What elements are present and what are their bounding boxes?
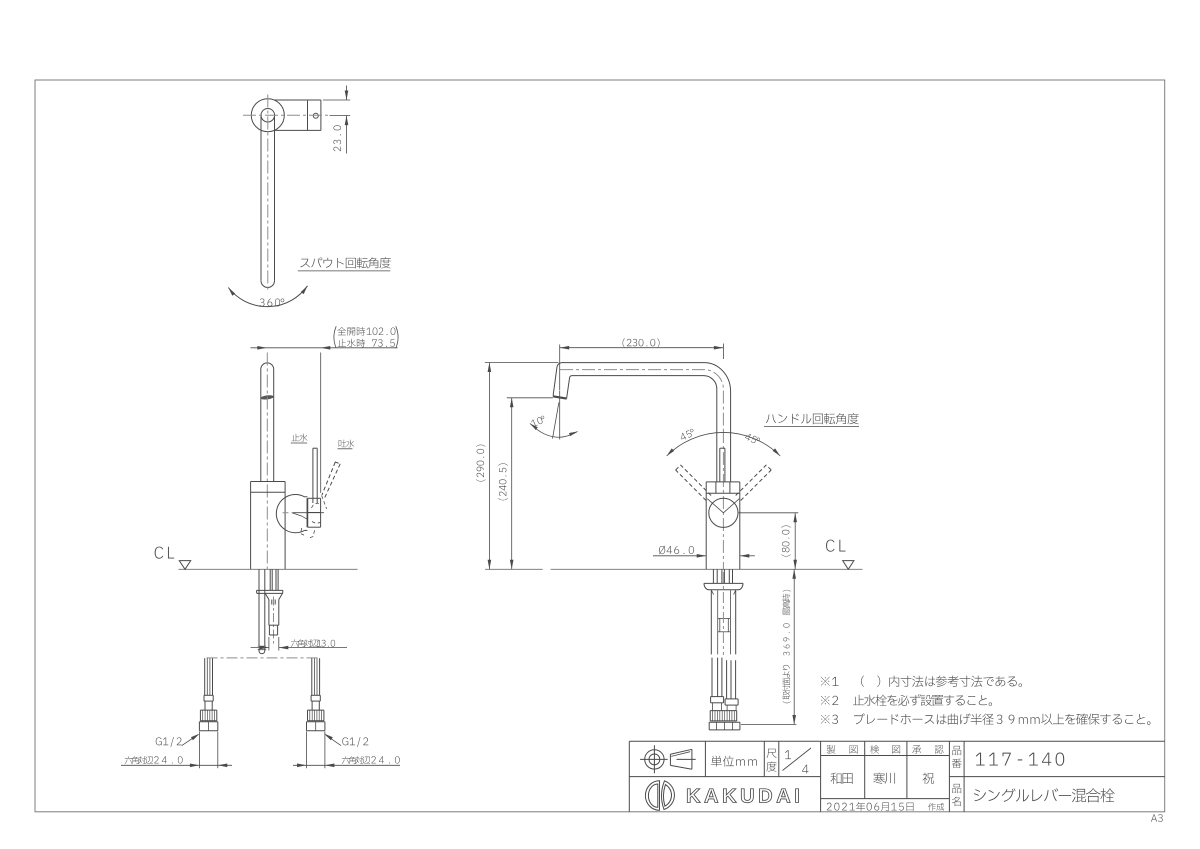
counter mounting line (left segment) xyxy=(179,568,358,570)
handle reach dimension text: open 102.0 / closed 73.5 with parens xyxy=(337,327,365,335)
plan view spout tube inner circle xyxy=(261,108,275,122)
dimension (290.0) extension line xyxy=(485,362,559,364)
names wada samukawa shuku xyxy=(831,773,853,784)
dashed handle position left 45 xyxy=(676,470,707,501)
note 3: keep braided hose bend radius at least 39mm xyxy=(821,715,838,724)
dimension (230.0) extension lines xyxy=(559,345,561,391)
unit label tan-i mm xyxy=(711,756,757,767)
dimension 369.0 bottom extension line xyxy=(741,724,796,726)
dimension (80.0) line and arrows xyxy=(794,513,796,570)
KAKUDAI logo mark xyxy=(645,781,659,811)
hinmei label (product name) xyxy=(952,784,961,793)
side view spout inner contour xyxy=(567,376,717,482)
hose end tube xyxy=(204,658,206,695)
side view shank centerline (chain) xyxy=(722,572,724,655)
dimension (240.5) extension line xyxy=(507,397,553,399)
diameter 46.0 dimension with arrows xyxy=(659,546,694,555)
date 2021-06-15 created xyxy=(827,803,855,811)
side view threaded shank outline xyxy=(710,590,712,654)
hose end collar xyxy=(311,694,320,696)
plan view body outline xyxy=(274,99,321,101)
right fitting hex 24.0 dimension line xyxy=(293,764,400,766)
CL datum triangle left xyxy=(179,561,190,570)
handle reach extension lines xyxy=(320,353,322,493)
fitting ribbed nut xyxy=(200,709,216,711)
drawn checked approved headers xyxy=(827,745,836,754)
side view spout outer contour xyxy=(562,363,731,482)
dimension 369.0 line and arrows xyxy=(793,569,795,724)
hose end neck xyxy=(204,701,206,710)
side view shank inner tube lines xyxy=(717,590,719,654)
title block outer and grid lines xyxy=(629,740,1164,742)
plan view swivel housing circle xyxy=(251,99,284,132)
dimension text (80.0) rotated xyxy=(781,525,790,556)
dimension text hex across flats 13.0 xyxy=(291,639,319,647)
front view body outline xyxy=(251,481,286,483)
label discharge (tosui) with underline xyxy=(339,440,355,448)
counter mounting line (right segment) xyxy=(551,568,863,570)
front view valve dome arc xyxy=(276,495,304,533)
dimension 23.0 extension lines xyxy=(323,99,350,101)
hose end neck xyxy=(311,701,313,710)
dimension text (240.5) rotated xyxy=(498,463,507,500)
front view valve cylinder top and bottom xyxy=(305,496,308,498)
side view riser centerline (chain) xyxy=(722,430,724,569)
plan view spout tube end cap xyxy=(261,281,275,288)
CL datum triangle right xyxy=(843,561,854,570)
dashed handle position right 45 xyxy=(741,470,772,501)
scale value 1/4 xyxy=(785,750,791,759)
sheet size label A3 xyxy=(1151,814,1163,822)
hex 13.0 dimension line and arrows xyxy=(251,647,269,649)
front view escutcheon flange xyxy=(257,589,283,591)
KAKUDAI logo text xyxy=(687,789,798,803)
CL label left xyxy=(155,547,174,559)
dimension text (290.0) rotated xyxy=(476,445,485,482)
side view ribbed nuts xyxy=(710,710,737,712)
fitting hex nut G1/2 xyxy=(199,721,217,723)
side view pivot V lines xyxy=(707,499,723,513)
handle swing 45 degree arc with arrows xyxy=(667,432,781,456)
plan view body end-cap divider xyxy=(307,101,309,130)
CL label right xyxy=(826,540,845,552)
outlet angle 10 degree lines xyxy=(559,391,561,440)
fitting ribbed nut xyxy=(308,709,324,711)
outlet angle arc with arrows xyxy=(530,424,578,438)
left fitting hex 24.0 dimension line xyxy=(121,764,232,766)
front view spout tube with round cap xyxy=(261,363,274,482)
side view hose collars xyxy=(711,696,724,698)
side view spout outlet face xyxy=(553,396,567,398)
side view hose tubes below break xyxy=(711,658,713,697)
front view valve cap xyxy=(306,498,308,527)
front view shank lines below body xyxy=(269,569,271,590)
text 45 right (tilted) xyxy=(744,433,760,446)
right G1/2 leader and label xyxy=(342,737,368,747)
third angle projection symbol xyxy=(645,750,664,769)
product name single lever mixing faucet xyxy=(974,788,1115,802)
note 2: always install stop valves xyxy=(821,696,838,705)
front view valve cap rotated position (dashed) xyxy=(322,496,327,509)
front view lever rotated position (dashed) xyxy=(322,462,335,495)
side view body collar line xyxy=(706,492,740,494)
front view threaded shank xyxy=(268,600,270,626)
side view handle pivot circle xyxy=(709,498,738,527)
front view hose clamp ticks xyxy=(258,645,266,647)
dimension (230.0) line and arrows xyxy=(560,347,724,349)
counter mounting line (under dimension arrows) xyxy=(485,568,543,570)
side view shank clamp detail xyxy=(718,617,731,619)
side view collar necks xyxy=(712,703,714,711)
hex 13.0 dimension extension lines xyxy=(268,637,270,651)
front view valve internal wedge xyxy=(292,513,302,516)
note 1: dimensions in parentheses are reference xyxy=(821,677,839,686)
right dimension text hex across flats 24.0 xyxy=(342,756,370,764)
text 10 degrees (tilted) xyxy=(531,415,547,427)
front view valve horizontal centerline xyxy=(283,512,293,514)
dimension (80.0) extension line xyxy=(739,512,799,514)
product number 117-140 xyxy=(976,752,1064,765)
front view lock nut xyxy=(269,624,279,626)
text 45 left (tilted) xyxy=(679,428,695,441)
front view shank centerline xyxy=(273,597,275,644)
text 360 degrees xyxy=(260,298,285,306)
side view flange neck xyxy=(711,590,713,595)
hose end collar xyxy=(204,694,213,696)
scale label shakudo xyxy=(767,749,777,758)
dimension 23.0 leader line and arrows xyxy=(346,86,348,101)
front view spout outlet (dark lens) xyxy=(261,395,274,401)
hex 24.0 dimension extension lines xyxy=(198,732,200,769)
front view flange funnel xyxy=(265,593,269,599)
left G1/2 leader and label xyxy=(156,737,182,747)
side view lever rod xyxy=(719,448,721,482)
hex 24.0 dimension extension lines xyxy=(306,732,308,769)
side view escutcheon flange xyxy=(704,582,743,584)
dimension text (230.0) xyxy=(623,338,660,347)
label spout rotation angle (supauto kaiten kakudo) xyxy=(300,257,390,268)
hose routing chain line xyxy=(207,657,318,659)
front view lever rod xyxy=(312,448,314,503)
front view hose rounded end xyxy=(259,649,265,654)
side view hoses and stem between counter and flange xyxy=(712,569,714,583)
hose end tube xyxy=(311,658,313,695)
side view body outline xyxy=(706,481,740,483)
spout swing 360 degree arc with arrows xyxy=(228,286,307,307)
side view spout centerline (chain) xyxy=(560,370,723,430)
plan view spout tube sides xyxy=(260,115,262,281)
dimension text 23.0 (rotated) xyxy=(333,125,341,151)
label handle rotation angle (handoru kaiten kakudo) xyxy=(766,413,859,424)
label shutoff (shisui) with underline xyxy=(292,434,308,442)
left dimension text hex across flats 24.0 xyxy=(125,756,153,764)
handle reach dimension line xyxy=(251,347,398,349)
front view vertical centerline xyxy=(266,353,268,570)
plan view horizontal centerline xyxy=(243,114,331,116)
front view body collar line xyxy=(251,491,286,493)
hinban label (product number) xyxy=(952,746,961,755)
side view hex nuts G1/2 xyxy=(709,721,740,723)
dimension text 369.0 from mounting face (rotated) xyxy=(782,590,790,703)
fitting hex nut G1/2 xyxy=(307,721,325,723)
dimension (240.5) line and arrows xyxy=(511,398,513,570)
dimension (290.0) line and arrows xyxy=(488,363,490,570)
side view lever pedestal xyxy=(715,482,717,493)
plan view set screw circle xyxy=(313,113,318,118)
front view hose pair below body xyxy=(258,569,260,646)
plan view vertical centerline xyxy=(267,95,269,292)
